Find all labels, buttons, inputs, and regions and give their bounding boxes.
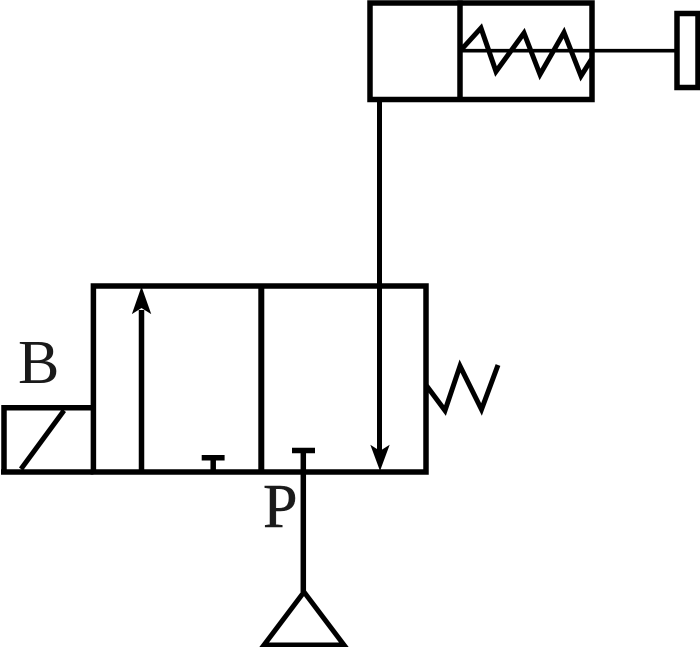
valve V1 blocked port T2 (right position) (292, 448, 315, 454)
valve V1 flow arrow up head (133, 288, 151, 313)
cylinder C1 body (370, 3, 592, 100)
valve V1 body (2-position) (93, 286, 426, 472)
valve V1 flow arrow down head (right position) (371, 446, 388, 470)
cylinder C1 return spring (461, 28, 592, 76)
wire: pilot line from cylinder to valve (377, 100, 382, 459)
cylinder C1 piston rod (461, 49, 677, 53)
solenoid actuator S1 diagonal (21, 411, 64, 470)
solenoid actuator S1 box (1, 405, 93, 472)
svg-text:P: P (263, 473, 297, 541)
svg-text:B: B (18, 329, 59, 397)
valve V1 return spring (426, 365, 498, 411)
cylinder C1 piston (457, 0, 463, 99)
rod end plate (677, 14, 698, 88)
valve V1 flow arrow up (left position) shaft (139, 310, 145, 472)
wire: P port line to exhaust (301, 451, 307, 593)
exhaust triangle (264, 592, 344, 645)
valve V1 position divider (258, 286, 264, 472)
valve V1 blocked port T1 (left position) (202, 458, 225, 470)
